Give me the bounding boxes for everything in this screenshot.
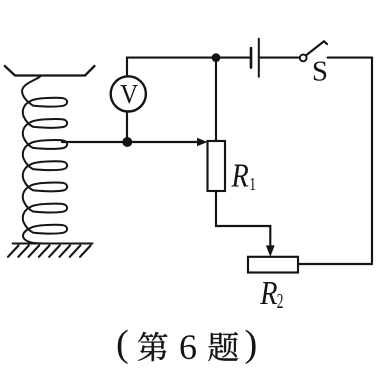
svg-text:): ): [245, 323, 258, 365]
svg-text:S: S: [312, 55, 328, 87]
wiper arrow onto R2: [266, 245, 275, 256]
wire: right side vertical: [371, 58, 373, 264]
junction node A (voltmeter tap): [122, 137, 132, 147]
rheostat R2 (body): [248, 257, 298, 273]
wire: junction B to battery: [216, 57, 250, 59]
svg-text:1: 1: [249, 175, 256, 194]
wire: battery to switch: [260, 57, 300, 59]
wire: spring to R1 wiper: [62, 141, 198, 143]
wire: R1 bottom lead to R2 wiper arrow: [216, 191, 270, 250]
resistor R1 (body): [208, 141, 226, 191]
switch S blade: [306, 41, 327, 55]
wire: bottom right to R2: [298, 263, 372, 265]
svg-text:6: 6: [179, 327, 197, 367]
support bracket (spring mount): [5, 66, 95, 76]
ground (hatched earth): [8, 244, 93, 257]
svg-text:R: R: [231, 156, 249, 194]
svg-text:2: 2: [277, 289, 284, 313]
battery short plate (negative): [250, 48, 253, 68]
wire: voltmeter up and right to top junction: [127, 58, 212, 77]
switch S right terminal wire to top-right corner: [328, 57, 372, 59]
switch S pivot circle: [300, 55, 307, 62]
wire: junction B down to R1: [215, 58, 217, 141]
svg-text:R: R: [259, 274, 277, 312]
caption: character 题: [208, 332, 238, 361]
spring (coil): [22, 77, 67, 244]
wiper arrow of R1: [197, 138, 208, 147]
wire: junction A up to voltmeter: [126, 111, 128, 142]
caption: character 第: [138, 332, 168, 361]
svg-text:(: (: [116, 323, 129, 365]
battery long plate (positive): [258, 39, 260, 77]
junction node B (top): [212, 53, 221, 62]
voltmeter V: [111, 76, 146, 111]
svg-text:V: V: [120, 79, 138, 109]
